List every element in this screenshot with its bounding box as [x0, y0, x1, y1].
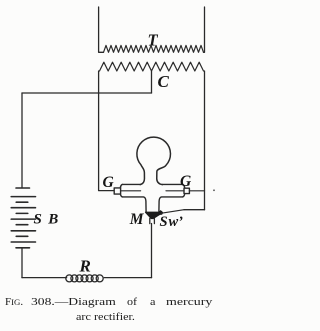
bulb left arm bottom line + funnel left side: [122, 197, 146, 213]
bulb left tube end cap: [120, 184, 122, 197]
ink speck (right margin): [213, 189, 215, 191]
battery SB long plate 1: [11, 196, 35, 198]
wire: bottom rail left of R: [22, 277, 67, 279]
wire: riser from bottom rail to mercury stem M: [151, 224, 153, 278]
transformer winding T (zigzag): [104, 45, 204, 52]
caption line 1: Fig. 308.-Diagram of a mercury: [5, 296, 23, 308]
battery SB bottom terminal plate: [16, 247, 30, 249]
svg-text:S: S: [160, 214, 168, 230]
svg-text:T: T: [148, 31, 159, 50]
wire: right end of C down right side: [204, 71, 206, 210]
left anode terminal square G: [114, 188, 120, 194]
switch hinge contact blob: [159, 211, 163, 215]
svg-text:C: C: [158, 72, 170, 91]
wire: left column down to battery: [21, 93, 23, 188]
mercury pool M (filled cone): [146, 211, 163, 219]
right anode terminal square G: [184, 188, 189, 193]
battery SB short plate 2: [16, 212, 28, 214]
left anode lead inside arm: [121, 190, 141, 192]
battery SB short plate 1: [16, 201, 28, 203]
svg-text:G: G: [180, 173, 192, 190]
resistor R coil loops: [66, 275, 73, 282]
svg-text:w’: w’: [169, 214, 184, 230]
bulb right tube end cap: [183, 184, 185, 197]
switch Sw' blade: [162, 210, 185, 214]
right anode lead inside arm: [166, 190, 184, 192]
battery SB short plate 4: [16, 235, 28, 237]
caption line 2: [76, 311, 135, 323]
svg-text:B: B: [47, 212, 58, 228]
wire: bottom rail right of R: [104, 277, 151, 279]
wire: AC supply lead right (top): [204, 7, 205, 52]
wire: right square to right column: [189, 190, 204, 192]
bulb right arm top line: [162, 183, 182, 185]
battery SB long plate 3: [11, 218, 35, 220]
bulb dome and neck: [137, 137, 171, 185]
bulb left arm top line: [122, 183, 140, 185]
battery SB long plate 4: [11, 230, 35, 232]
wire: C centre tap down: [151, 71, 153, 93]
svg-text:R: R: [79, 257, 91, 276]
svg-text:G: G: [103, 174, 115, 191]
wire: battery bottom to lower rail: [21, 248, 23, 278]
battery SB long plate 5: [11, 241, 35, 243]
bulb right arm bottom line + funnel right side: [159, 197, 183, 212]
battery SB top terminal plate: [16, 187, 30, 189]
battery SB long plate 2: [11, 207, 35, 209]
svg-text:M: M: [129, 211, 145, 228]
wire: tap horizontal run to left column: [22, 92, 152, 94]
switch Sw' fixed stub to right column: [184, 209, 205, 211]
stem tube below M: [150, 218, 155, 223]
wire: left end of C down to left anode G: [99, 71, 115, 191]
compensator/choke winding C (zigzag): [100, 62, 204, 71]
battery SB short plate 3: [16, 224, 28, 226]
wire: AC supply lead left (top): [99, 7, 104, 52]
svg-text:S: S: [34, 212, 42, 228]
